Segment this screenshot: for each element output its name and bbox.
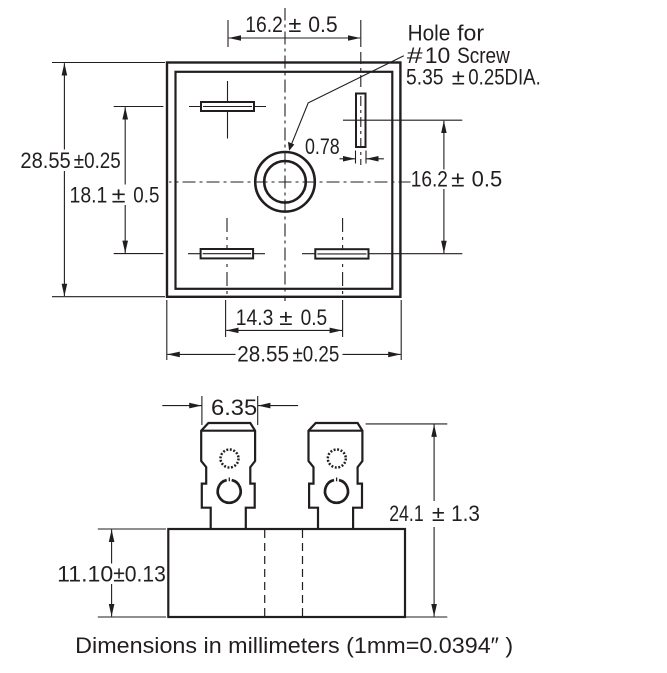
svg-text:Hole: Hole [408, 20, 451, 45]
svg-text:0.25DIA.: 0.25DIA. [468, 64, 541, 89]
svg-text:5.35: 5.35 [406, 64, 444, 89]
dimension 28.55 bottom [167, 300, 401, 367]
hidden line left inside body [264, 530, 266, 616]
svg-text:0.5: 0.5 [472, 167, 503, 192]
svg-text:6.35: 6.35 [211, 395, 257, 420]
svg-text:0.5: 0.5 [133, 182, 159, 207]
right terminal round hole [325, 478, 348, 503]
svg-text:±: ± [288, 12, 301, 37]
terminal slot top-left [189, 81, 266, 139]
svg-text:28.55: 28.55 [20, 148, 70, 173]
left terminal outline [201, 423, 255, 530]
dimension 6.35 terminal width [162, 395, 298, 425]
dimension 14.3 bottom [226, 300, 343, 337]
dimension 24.1 right [366, 424, 484, 617]
hole callout text [406, 20, 541, 89]
svg-text:±: ± [432, 501, 445, 526]
left terminal round hole [218, 478, 241, 503]
svg-text:±: ± [451, 167, 464, 192]
dimension 11.10 left [57, 529, 166, 617]
svg-text:14.3: 14.3 [236, 305, 274, 330]
vertical center line of square [284, 8, 286, 301]
hidden line right inside body [302, 530, 304, 616]
svg-text:±0.13: ±0.13 [113, 561, 166, 586]
svg-text:1.3: 1.3 [451, 501, 480, 526]
svg-text:0.5: 0.5 [308, 12, 337, 37]
svg-text:±: ± [452, 64, 465, 89]
terminal slot top-right (vertical) [356, 52, 366, 165]
terminal slot bottom-right [302, 218, 462, 296]
svg-text:Dimensions in millimeters (1mm: Dimensions in millimeters (1mm=0.0394″ ) [75, 633, 513, 658]
mounting hole outer circle [255, 152, 315, 212]
mounting hole inner circle (5.35 DIA) [264, 161, 306, 203]
svg-text:±: ± [279, 305, 292, 330]
right terminal dotted hole [328, 450, 346, 468]
horizontal center line of square [169, 181, 411, 183]
dimension 16.2 top [228, 12, 361, 47]
dimension 16.2 right [343, 120, 506, 253]
body rectangle [168, 529, 405, 617]
svg-text:18.1: 18.1 [70, 182, 108, 207]
svg-text:11.10: 11.10 [57, 561, 113, 586]
terminal slot bottom-left [188, 218, 265, 296]
svg-text:24.1: 24.1 [389, 501, 424, 526]
svg-text:0.78: 0.78 [305, 134, 340, 159]
outer square (package body outline) [167, 63, 400, 297]
svg-text:±0.25: ±0.25 [293, 342, 340, 367]
dimension 28.55 left [19, 63, 165, 297]
svg-text:28.55: 28.55 [237, 342, 289, 367]
left terminal dotted hole [221, 450, 239, 468]
svg-text:±0.25: ±0.25 [74, 148, 121, 173]
right terminal outline [309, 423, 363, 530]
svg-text:±: ± [112, 182, 126, 207]
leader line for hole callout [288, 56, 404, 151]
svg-text:16.2: 16.2 [411, 167, 448, 192]
svg-text:0.5: 0.5 [301, 305, 328, 330]
svg-text:16.2: 16.2 [245, 12, 282, 37]
inner square (package top face) [176, 72, 393, 289]
dimension 0.78 (slot width) [305, 134, 384, 164]
svg-text:for: for [457, 20, 484, 45]
dimension 18.1 left inner [69, 107, 163, 254]
